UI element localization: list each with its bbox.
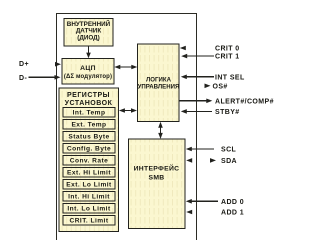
svg-text:Int. Hi Limit: Int. Hi Limit: [68, 193, 110, 200]
pin D- label: [19, 75, 27, 82]
register Config. Byte: [63, 143, 115, 153]
svg-text:Config. Byte: Config. Byte: [67, 145, 111, 152]
svg-text:ADD 1: ADD 1: [221, 210, 244, 217]
pin D+ label: [19, 61, 29, 68]
svg-text:SMB: SMB: [148, 175, 164, 182]
bidirectional wire registers to control logic: [119, 108, 137, 113]
svg-text:ВНУТРЕННИЙ: ВНУТРЕННИЙ: [67, 19, 111, 28]
svg-text:ADD 0: ADD 0: [221, 199, 244, 206]
svg-text:CRIT 1: CRIT 1: [215, 54, 240, 61]
svg-text:Conv. Rate: Conv. Rate: [70, 157, 108, 164]
svg-text:РЕГИСТРЫ: РЕГИСТРЫ: [67, 92, 110, 99]
SMB interface block ИНТЕРФЕЙС SMB: [129, 139, 186, 229]
pin INT SEL label: [215, 74, 245, 81]
svg-text:УПРАВЛЕНИЯ: УПРАВЛЕНИЯ: [138, 84, 180, 91]
pin STBY# label: [215, 109, 240, 116]
svg-text:CRIT 0: CRIT 0: [215, 46, 240, 53]
ADC block АЦП (ΔΣ модулятор): [62, 59, 114, 85]
register CRIT. Limit: [63, 215, 115, 225]
pin OS# label: [213, 83, 228, 90]
pin SDA arrowhead into SMB interface: [186, 158, 192, 163]
svg-text:D-: D-: [19, 75, 27, 82]
svg-text:ЛОГИКА: ЛОГИКА: [146, 77, 172, 84]
pin ALERT#/COMP# label: [215, 98, 274, 105]
svg-text:D+: D+: [19, 61, 29, 68]
pin ADD 1 label: [221, 210, 244, 217]
wire STBY# with arrowhead into logic: [181, 109, 212, 114]
svg-text:SCL: SCL: [221, 147, 237, 154]
wire ADD 0 with arrowhead into SMB interface: [186, 199, 218, 204]
svg-text:ALERT#/COMP#: ALERT#/COMP#: [215, 98, 274, 105]
control logic block ЛОГИКА УПРАВЛЕНИЯ: [138, 44, 180, 122]
svg-text:Int. Temp: Int. Temp: [73, 109, 106, 116]
register Status Byte: [63, 131, 115, 141]
pin ADD 1 arrowhead into SMB interface: [186, 210, 192, 215]
pin CRIT 0 label: [215, 46, 240, 53]
svg-text:STBY#: STBY#: [215, 109, 240, 116]
svg-text:Status Byte: Status Byte: [68, 133, 109, 140]
svg-text:АЦП: АЦП: [80, 65, 96, 72]
register Int. Temp: [63, 107, 115, 117]
pin CRIT 0 arrowhead into logic: [180, 46, 186, 51]
wire ALERT#/COMP# output with right arrowhead: [180, 99, 213, 104]
register Ext. Lo Limit: [63, 179, 115, 189]
IC outer boundary (open at bottom): [57, 14, 197, 241]
register Int. Lo Limit: [63, 203, 115, 213]
register Int. Hi Limit: [63, 191, 115, 201]
register Conv. Rate: [63, 155, 115, 165]
svg-text:(ΔΣ модулятор): (ΔΣ модулятор): [64, 74, 112, 80]
pin SDA label: [221, 158, 237, 165]
pin D+ arrowhead into ADC: [55, 62, 61, 67]
svg-text:УСТАНОВОК: УСТАНОВОК: [65, 100, 113, 107]
svg-text:ИНТЕРФЕЙС: ИНТЕРФЕЙС: [134, 164, 180, 173]
wire INT SEL with arrowhead into logic: [181, 75, 214, 80]
pin CRIT 1 label: [215, 54, 240, 61]
svg-text:OS#: OS#: [213, 83, 228, 90]
register Ext. Hi Limit: [63, 167, 115, 177]
svg-text:SDA: SDA: [221, 158, 237, 165]
setup registers block РЕГИСТРЫ УСТАНОВОК: [59, 88, 119, 232]
internal temperature sensor block (ВНУТРЕННИЙ ДАТЧИК (ДИОД)): [64, 19, 113, 47]
wire sensor to ADC with down arrowhead: [86, 46, 91, 58]
pin SCL label: [221, 147, 237, 154]
pin SDA output arrowhead: [210, 158, 216, 163]
wire D- to ADC with left-side arrowhead: [29, 75, 61, 80]
svg-text:Ext. Lo Limit: Ext. Lo Limit: [66, 181, 112, 188]
wire SCL with arrowhead into SMB interface: [186, 147, 214, 152]
pin ADD 0 label: [221, 199, 244, 206]
bidirectional wire control logic to SMB interface: [158, 122, 163, 139]
bidirectional wire ADC to control logic: [114, 65, 137, 70]
svg-text:CRIT. Limit: CRIT. Limit: [69, 217, 108, 224]
register Ext. Temp: [63, 119, 115, 129]
pin OS# output arrowhead: [205, 84, 211, 89]
svg-text:Ext. Temp: Ext. Temp: [71, 121, 106, 128]
svg-text:(ДИОД): (ДИОД): [77, 34, 100, 41]
wire CRIT 1 with arrowhead into logic: [181, 54, 214, 59]
svg-text:Int. Lo Limit: Int. Lo Limit: [67, 205, 111, 212]
svg-text:Ext. Hi Limit: Ext. Hi Limit: [67, 169, 111, 176]
svg-text:INT SEL: INT SEL: [215, 74, 245, 81]
